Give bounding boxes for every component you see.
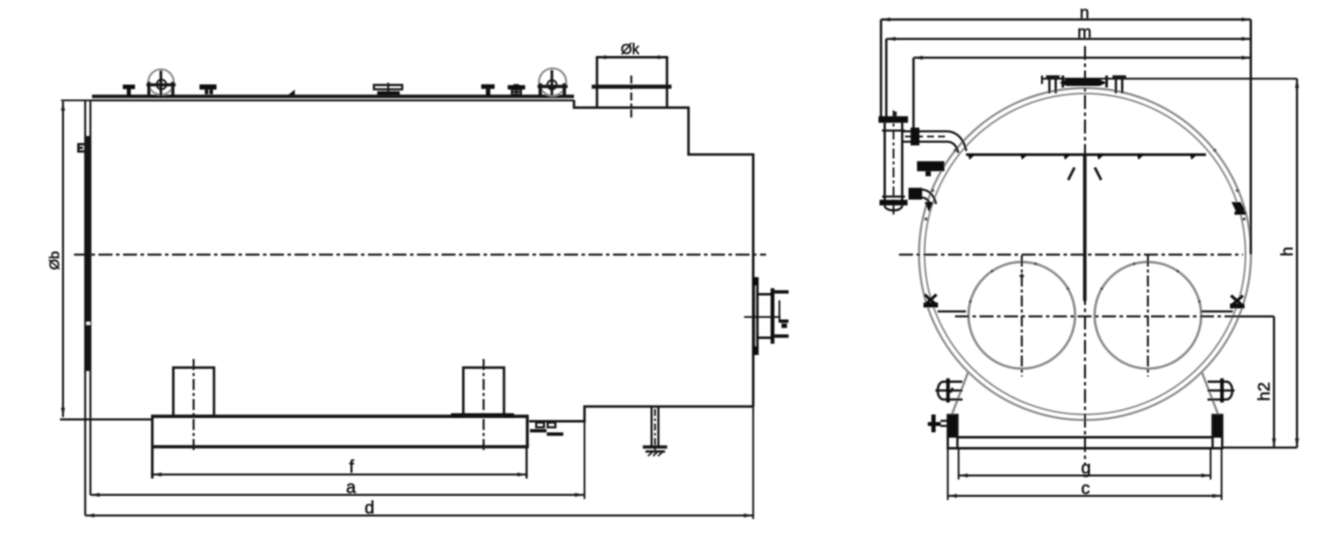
rear nozzle second flange [771, 288, 775, 344]
gauge top flange [879, 116, 909, 123]
dimension m [886, 38, 1251, 40]
svg-text:a: a [346, 477, 356, 497]
base right side + f extension [526, 416, 529, 447]
chimney box [597, 57, 667, 107]
right foot centerline [483, 359, 485, 451]
rear flange bolt bottom [752, 346, 758, 355]
center partition thick line [1083, 155, 1086, 301]
boiler top plate lower line [92, 99, 574, 101]
right handhole mark [1231, 296, 1243, 307]
dimension f [152, 474, 526, 476]
gauge extension line n [880, 20, 882, 117]
shell step to chimney ledge [574, 100, 753, 407]
base beam [957, 436, 1212, 439]
left furnace centerline [1021, 256, 1023, 377]
svg-text:f: f [349, 457, 354, 477]
horizontal centerline of front view [899, 254, 1243, 256]
front plate inner line (extends to a dimension) [89, 100, 91, 496]
blowdown valve right of base [536, 423, 555, 428]
left small top valve [1046, 75, 1060, 78]
furnace tick left [1020, 274, 1025, 280]
rear nozzle arms [774, 290, 788, 293]
boiler centerline [74, 254, 766, 256]
top valve 1 [123, 85, 135, 90]
chimney Øk dimension arrows [597, 56, 667, 58]
rear nozzle valve cluster [780, 320, 789, 329]
dimension line 3 [914, 57, 1251, 59]
right saddle support line [1202, 373, 1219, 416]
base top plate (thick) [151, 415, 529, 418]
svg-text:m: m [1077, 22, 1091, 41]
left side nozzle [938, 382, 963, 400]
front plate thick band [86, 136, 90, 371]
dimension Øb [62, 102, 64, 418]
water level ticks [968, 155, 1197, 160]
lower pipe elbow [922, 190, 936, 206]
svg-text:n: n [1080, 3, 1089, 22]
safety valve 2 uprights [540, 83, 564, 95]
base bottom plate (thick) [151, 445, 529, 448]
gauge extension line 3 [912, 58, 914, 129]
svg-text:h: h [1278, 247, 1297, 256]
svg-text:g: g [1081, 458, 1091, 478]
top valve 3 [200, 84, 217, 89]
left handhole line [938, 310, 967, 312]
main valve flanges [1063, 76, 1107, 88]
main steam valve leader line to h [1042, 78, 1297, 80]
gauge bottom flange [880, 200, 908, 206]
base end plate right [1213, 415, 1223, 438]
shell inner circle [925, 94, 1246, 415]
svg-text:d: d [365, 498, 375, 518]
front plate outer line (extends to d dimension) [84, 100, 86, 516]
dimension d [85, 515, 753, 517]
right furnace centerline [1147, 256, 1149, 377]
safety valve 2 circle [539, 68, 566, 95]
dimension g [959, 475, 1211, 477]
left handhole mark [925, 295, 937, 306]
rear nozzle body lines [758, 294, 774, 337]
boiler top plate (thick) [92, 95, 574, 98]
manhole cover [374, 85, 402, 89]
left foot [173, 368, 214, 417]
gauge flange lines [882, 131, 905, 197]
drain pipe under rear [652, 407, 659, 447]
lower drain triangle [925, 202, 934, 212]
gauge extension line m [885, 39, 887, 117]
leader left tick [1041, 76, 1043, 85]
black pad under right foot [451, 413, 514, 417]
right side nozzle [1208, 382, 1233, 400]
middle blowoff valve [917, 161, 944, 171]
rear smokebox bottom [529, 407, 753, 422]
shell outer circle [919, 88, 1251, 420]
dimension h2 [1238, 315, 1274, 317]
stay bolt dots [924, 149, 1245, 221]
gauge centerline [893, 111, 895, 215]
front bracket [78, 144, 85, 151]
svg-text:Øb: Øb [46, 251, 62, 270]
dimension h [1296, 79, 1298, 448]
rear nozzle stem [778, 300, 780, 322]
steam pipe valve [911, 128, 920, 146]
dimension n [881, 18, 1251, 20]
steam pipe to gauge [903, 131, 948, 141]
furnace arc dots [969, 262, 1201, 303]
right foot [463, 368, 504, 417]
safety valve 2 inner circle [547, 80, 556, 89]
base left side + f extension [151, 416, 154, 478]
top valve 4 [481, 84, 494, 89]
safety valve 1 flange bar [147, 83, 176, 86]
right small top valve [1113, 75, 1127, 78]
chimney centerline [630, 76, 632, 118]
svg-text:Øk: Øk [621, 42, 640, 58]
right tangent extension line [1250, 20, 1252, 255]
safety valve 1 stem [160, 71, 163, 96]
dimension a [90, 494, 584, 496]
lower valve [909, 188, 923, 200]
base end plate left [948, 415, 958, 438]
right furnace tube circle [1095, 262, 1202, 369]
svg-text:h2: h2 [1255, 382, 1274, 401]
dimension c [948, 495, 1222, 497]
right handhole line [1201, 310, 1233, 312]
left foot centerline [193, 359, 195, 451]
steam pipe elbow [948, 131, 966, 153]
safety valve 1 uprights [149, 82, 173, 96]
water level line [966, 153, 1206, 156]
safety valve 1 inner circle [157, 80, 167, 90]
base left fitting [941, 421, 948, 426]
rear nozzle centerline [744, 316, 780, 318]
base bottom extension to h [1222, 447, 1297, 449]
steam slashes [1068, 168, 1101, 181]
rear nozzle flange plate [754, 277, 758, 355]
left saddle support line [952, 373, 969, 416]
safety valve 2 flange bar [538, 85, 568, 88]
gauge bottom cap [885, 205, 903, 210]
main steam valve body [1060, 79, 1107, 86]
svg-text:c: c [1081, 478, 1090, 498]
safety valve 2 stem [551, 70, 554, 95]
rear flange bolt top [752, 277, 758, 285]
small wedge on top plate [288, 90, 294, 95]
left furnace tube circle [969, 262, 1076, 369]
safety valve 1 circle [148, 69, 173, 94]
top valve 5 with grid [508, 85, 525, 89]
vertical centerline of front view [1084, 46, 1086, 465]
boiler bottom front segment + Øb extension [60, 418, 153, 420]
furnace horizontal centerline [955, 315, 1240, 317]
upper right handhole mark [1232, 202, 1247, 215]
water gauge body [885, 123, 903, 203]
chimney flange (thick) [592, 85, 672, 89]
